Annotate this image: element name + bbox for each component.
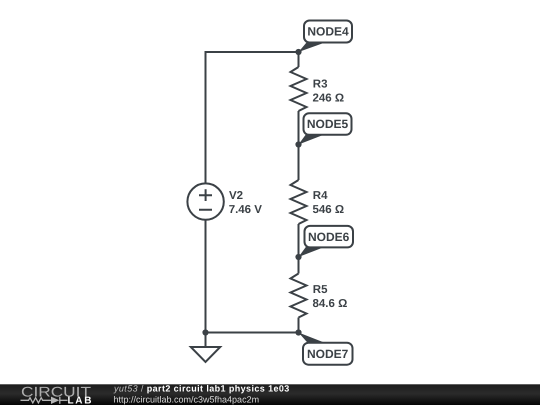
resistor R3 — [291, 67, 307, 111]
logo diode — [51, 397, 59, 404]
svg-text:NODE5: NODE5 — [307, 117, 349, 131]
wire V2 top up and across to NODE4 — [206, 52, 299, 184]
wire R3 to R4 through NODE5 — [298, 111, 300, 180]
node NODE7 callout — [299, 333, 353, 365]
resistor R5 — [291, 274, 307, 318]
svg-text:NODE7: NODE7 — [307, 347, 349, 361]
wire R4 to R5 through NODE6 — [298, 224, 300, 274]
voltage source V2 — [187, 183, 223, 219]
node NODE4 callout — [299, 21, 353, 53]
wire bottom rail to NODE7 — [206, 332, 299, 334]
logo doodle wire — [21, 397, 68, 404]
wire V2 bottom down to ground rail — [205, 220, 207, 333]
svg-text:7.46 V: 7.46 V — [229, 204, 263, 216]
junction NODE5 — [295, 141, 301, 147]
svg-text:246 Ω: 246 Ω — [313, 93, 345, 105]
wire NODE4 to R3 top lead — [298, 52, 300, 67]
svg-text:R3: R3 — [313, 79, 328, 91]
junction NODE7 — [295, 329, 301, 335]
svg-text:546 Ω: 546 Ω — [313, 204, 345, 216]
node NODE5 callout — [299, 113, 352, 144]
wire R5 bottom lead — [298, 318, 300, 333]
svg-text:84.6 Ω: 84.6 Ω — [313, 298, 348, 310]
footer bar — [0, 384, 540, 405]
wire ground stub — [205, 333, 207, 348]
resistor R4 — [291, 180, 307, 224]
junction NODE4 — [295, 49, 301, 55]
svg-text:http://circuitlab.com/c3w5fha4: http://circuitlab.com/c3w5fha4pac2m — [114, 395, 260, 405]
svg-text:NODE6: NODE6 — [308, 230, 350, 244]
junction NODE6 — [295, 254, 301, 260]
svg-text:R5: R5 — [313, 284, 328, 296]
junction ground rail — [202, 329, 208, 335]
node NODE6 callout — [299, 226, 354, 257]
svg-text:NODE4: NODE4 — [307, 25, 349, 39]
svg-text:R4: R4 — [313, 190, 328, 202]
svg-text:LAB: LAB — [68, 396, 94, 405]
ground — [191, 347, 220, 362]
svg-text:V2: V2 — [229, 190, 243, 202]
svg-text:yut53 / part2 circuit lab1 phy: yut53 / part2 circuit lab1 physics 1e03 — [113, 384, 290, 394]
